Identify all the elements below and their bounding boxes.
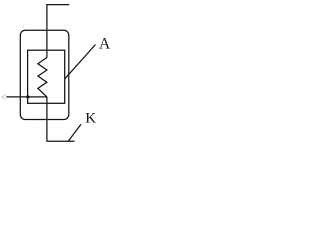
cathode lead (bottom wire)	[47, 97, 75, 141]
inner electrode box	[28, 50, 65, 103]
side tap wire	[6, 96, 47, 98]
anode lead (top wire)	[47, 5, 69, 58]
pointer line to K	[68, 124, 81, 141]
pointer line to A	[65, 45, 96, 79]
svg-text:A: A	[99, 36, 111, 53]
filament resistor zigzag	[38, 58, 47, 97]
tube envelope	[20, 30, 69, 119]
arrowhead on side tap	[2, 94, 6, 99]
junction dot	[26, 95, 29, 98]
svg-text:K: K	[85, 111, 96, 127]
